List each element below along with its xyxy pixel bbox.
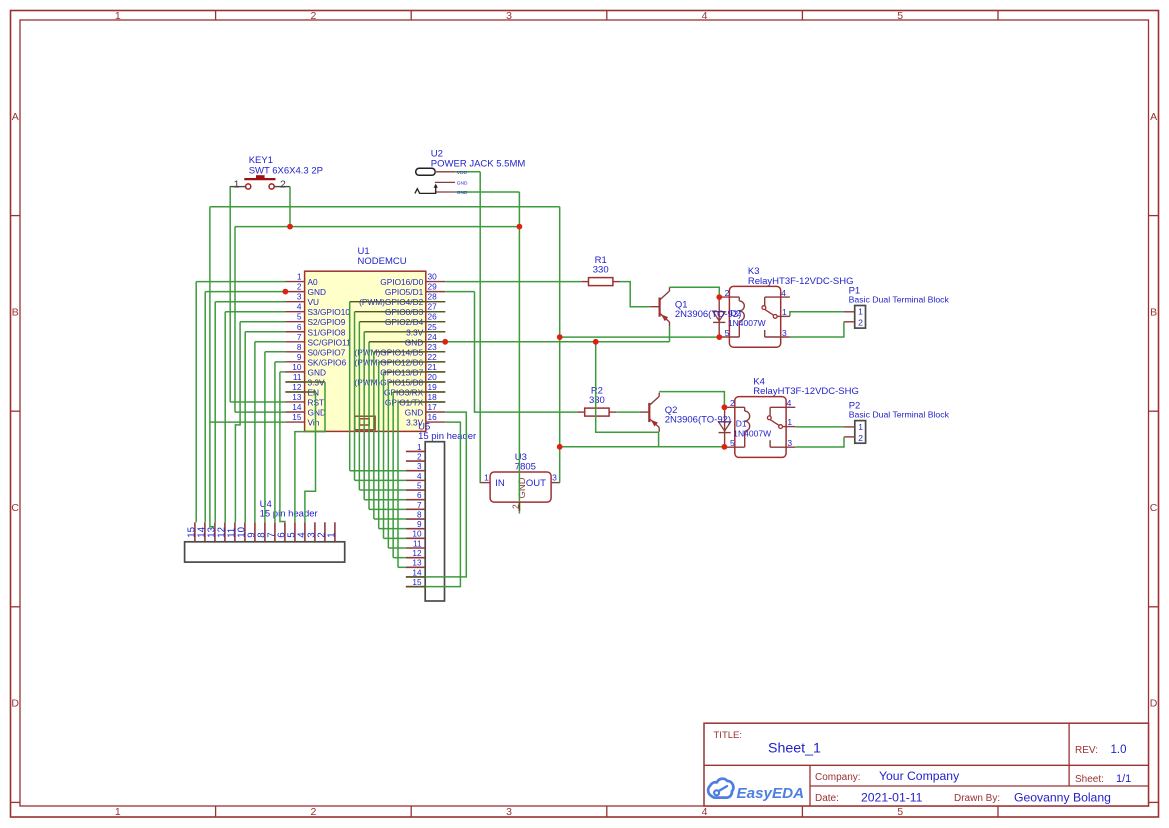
svg-text:3: 3 xyxy=(782,328,787,338)
svg-text:5: 5 xyxy=(297,312,302,322)
svg-text:14: 14 xyxy=(196,526,207,537)
svg-text:10: 10 xyxy=(412,530,422,539)
svg-text:1: 1 xyxy=(787,417,792,427)
svg-text:1: 1 xyxy=(484,473,489,483)
svg-text:13: 13 xyxy=(292,392,302,402)
svg-text:C: C xyxy=(1150,502,1158,514)
svg-text:15: 15 xyxy=(292,412,302,422)
svg-text:POWER JACK 5.5MM: POWER JACK 5.5MM xyxy=(431,158,526,169)
svg-text:1: 1 xyxy=(417,443,422,452)
svg-text:14: 14 xyxy=(292,402,302,412)
svg-text:5: 5 xyxy=(286,532,297,537)
svg-text:GPIO5/D1: GPIO5/D1 xyxy=(385,287,424,297)
svg-text:4: 4 xyxy=(417,472,422,481)
svg-text:3: 3 xyxy=(552,473,557,483)
svg-text:2: 2 xyxy=(858,433,863,443)
svg-text:8: 8 xyxy=(417,510,422,519)
svg-text:1.0: 1.0 xyxy=(1111,744,1127,756)
svg-text:3: 3 xyxy=(297,292,302,302)
svg-text:TITLE:: TITLE: xyxy=(714,730,743,741)
svg-text:C: C xyxy=(11,502,19,514)
svg-text:13: 13 xyxy=(412,559,422,568)
svg-text:8: 8 xyxy=(256,532,267,537)
svg-text:2: 2 xyxy=(297,282,302,292)
svg-text:Sheet_1: Sheet_1 xyxy=(768,741,821,757)
svg-text:21: 21 xyxy=(428,362,438,372)
svg-text:GND: GND xyxy=(405,407,423,417)
svg-text:3: 3 xyxy=(417,462,422,471)
svg-text:5: 5 xyxy=(897,806,903,818)
svg-text:11: 11 xyxy=(293,372,302,382)
svg-text:D: D xyxy=(11,698,19,710)
svg-text:4: 4 xyxy=(702,806,708,818)
svg-text:SWT 6X6X4.3 2P: SWT 6X6X4.3 2P xyxy=(249,165,323,176)
svg-text:Geovanny Bolang: Geovanny Bolang xyxy=(1014,791,1111,805)
svg-text:25: 25 xyxy=(428,322,438,332)
svg-text:1: 1 xyxy=(326,532,337,537)
svg-text:1: 1 xyxy=(858,307,863,317)
svg-text:S3/GPIO10: S3/GPIO10 xyxy=(308,307,351,317)
svg-text:S1/GPIO8: S1/GPIO8 xyxy=(308,327,346,337)
svg-text:24: 24 xyxy=(428,332,438,342)
svg-text:B: B xyxy=(1150,307,1157,319)
svg-text:GPIO16/D0: GPIO16/D0 xyxy=(380,277,423,287)
svg-text:11: 11 xyxy=(226,528,237,538)
svg-text:2: 2 xyxy=(310,806,316,818)
svg-text:3: 3 xyxy=(506,10,512,22)
svg-text:GND: GND xyxy=(308,367,326,377)
svg-text:12: 12 xyxy=(216,527,227,538)
svg-text:3: 3 xyxy=(506,806,512,818)
svg-text:2: 2 xyxy=(417,452,422,461)
svg-text:1: 1 xyxy=(115,806,121,818)
svg-text:RelayHT3F-12VDC-SHG: RelayHT3F-12VDC-SHG xyxy=(748,276,854,287)
svg-text:30: 30 xyxy=(428,272,438,282)
svg-text:S2/GPIO9: S2/GPIO9 xyxy=(308,317,346,327)
svg-text:13: 13 xyxy=(206,527,217,538)
svg-text:12: 12 xyxy=(412,549,422,558)
svg-text:29: 29 xyxy=(428,282,438,292)
svg-text:7: 7 xyxy=(417,501,422,510)
svg-text:2: 2 xyxy=(316,532,327,537)
svg-text:7805: 7805 xyxy=(515,461,536,472)
svg-text:A: A xyxy=(1150,111,1157,123)
svg-text:4: 4 xyxy=(787,398,792,408)
svg-text:26: 26 xyxy=(428,312,438,322)
svg-text:GND: GND xyxy=(457,181,468,187)
svg-text:15 pin header: 15 pin header xyxy=(418,431,476,442)
svg-text:A: A xyxy=(12,111,19,123)
svg-text:NODEMCU: NODEMCU xyxy=(358,256,407,267)
svg-text:4: 4 xyxy=(702,10,708,22)
svg-text:8: 8 xyxy=(297,342,302,352)
svg-text:1N4007W: 1N4007W xyxy=(733,428,771,438)
svg-text:23: 23 xyxy=(428,342,438,352)
svg-text:2: 2 xyxy=(730,398,735,408)
svg-text:15 pin header: 15 pin header xyxy=(260,509,318,520)
svg-text:27: 27 xyxy=(428,302,438,312)
svg-text:10: 10 xyxy=(236,526,247,537)
svg-text:1: 1 xyxy=(115,10,121,22)
svg-text:SK/GPIO6: SK/GPIO6 xyxy=(308,357,347,367)
svg-text:17: 17 xyxy=(428,402,438,412)
svg-text:6: 6 xyxy=(417,491,422,500)
svg-text:1: 1 xyxy=(234,178,240,190)
svg-text:4: 4 xyxy=(297,302,302,312)
svg-text:15: 15 xyxy=(412,578,422,587)
svg-text:Basic Dual Terminal Block: Basic Dual Terminal Block xyxy=(849,295,950,305)
svg-text:9: 9 xyxy=(417,520,422,529)
svg-text:SC/GPIO11: SC/GPIO11 xyxy=(308,337,352,347)
svg-text:RelayHT3F-12VDC-SHG: RelayHT3F-12VDC-SHG xyxy=(753,386,859,397)
svg-text:D: D xyxy=(1150,698,1158,710)
svg-text:Date:: Date: xyxy=(815,793,839,804)
svg-text:A0: A0 xyxy=(308,277,319,287)
svg-text:2: 2 xyxy=(858,318,863,328)
svg-text:330: 330 xyxy=(589,395,605,406)
svg-text:15: 15 xyxy=(186,527,197,538)
svg-text:VU: VU xyxy=(308,297,320,307)
svg-text:1: 1 xyxy=(782,307,787,317)
svg-text:2: 2 xyxy=(725,288,730,298)
svg-text:19: 19 xyxy=(428,382,438,392)
svg-text:S0/GPIO7: S0/GPIO7 xyxy=(308,347,346,357)
svg-text:2021-01-11: 2021-01-11 xyxy=(861,791,923,805)
svg-text:2N3906(TO-92): 2N3906(TO-92) xyxy=(665,415,731,426)
svg-text:22: 22 xyxy=(428,352,438,362)
svg-text:10: 10 xyxy=(292,362,302,372)
svg-text:IN: IN xyxy=(495,478,505,489)
svg-text:9: 9 xyxy=(246,532,257,537)
svg-text:14: 14 xyxy=(412,568,422,577)
svg-text:330: 330 xyxy=(593,265,609,276)
svg-text:6: 6 xyxy=(276,532,287,537)
svg-text:GND: GND xyxy=(457,190,468,196)
svg-text:EasyEDA: EasyEDA xyxy=(737,785,805,802)
svg-text:2: 2 xyxy=(310,10,316,22)
svg-text:9: 9 xyxy=(297,352,302,362)
svg-text:D1: D1 xyxy=(736,418,747,428)
svg-text:GND: GND xyxy=(308,287,326,297)
svg-text:1: 1 xyxy=(297,272,302,282)
svg-text:3: 3 xyxy=(306,532,317,537)
svg-text:B: B xyxy=(12,307,19,319)
svg-text:5: 5 xyxy=(725,328,730,338)
svg-text:4: 4 xyxy=(296,532,307,538)
svg-text:2N3906(TO-92): 2N3906(TO-92) xyxy=(675,309,741,320)
svg-text:5: 5 xyxy=(417,481,422,490)
svg-text:4: 4 xyxy=(781,288,786,298)
svg-text:12: 12 xyxy=(292,382,302,392)
svg-text:5: 5 xyxy=(730,438,735,448)
svg-text:Vin: Vin xyxy=(308,418,320,428)
svg-text:VDD: VDD xyxy=(457,170,468,176)
svg-text:Basic Dual Terminal Block: Basic Dual Terminal Block xyxy=(849,410,950,420)
svg-text:2: 2 xyxy=(280,178,286,190)
svg-text:3: 3 xyxy=(787,438,792,448)
svg-text:7: 7 xyxy=(297,332,302,342)
svg-text:28: 28 xyxy=(428,292,438,302)
svg-text:11: 11 xyxy=(413,539,422,548)
svg-text:1: 1 xyxy=(858,422,863,432)
svg-text:7: 7 xyxy=(266,532,277,537)
svg-text:1/1: 1/1 xyxy=(1116,773,1131,785)
svg-text:18: 18 xyxy=(428,392,438,402)
svg-text:20: 20 xyxy=(428,372,438,382)
svg-text:Sheet:: Sheet: xyxy=(1075,774,1104,785)
svg-text:Company:: Company: xyxy=(815,772,861,783)
svg-text:OUT: OUT xyxy=(526,478,546,489)
svg-text:Your Company: Your Company xyxy=(879,769,960,783)
svg-text:GND: GND xyxy=(308,407,326,417)
svg-text:5: 5 xyxy=(897,10,903,22)
svg-text:Drawn By:: Drawn By: xyxy=(954,793,1000,804)
svg-text:6: 6 xyxy=(297,322,302,332)
svg-text:REV:: REV: xyxy=(1075,745,1098,756)
